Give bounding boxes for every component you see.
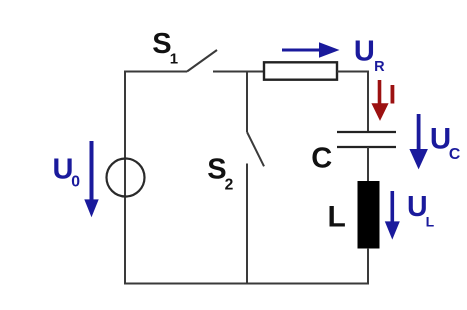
capacitor C top plate xyxy=(337,131,396,133)
svg-text:I: I xyxy=(389,80,396,110)
wire top left segment xyxy=(124,71,187,73)
arrow UR current (blue, right, above resistor) xyxy=(282,49,323,52)
svg-text:U: U xyxy=(354,36,375,68)
switch S1 blade xyxy=(187,50,217,72)
wire S2 branch lower xyxy=(246,164,248,284)
svg-text:L: L xyxy=(426,214,435,230)
arrow UL (blue, down) xyxy=(390,191,394,223)
wire S2 branch upper xyxy=(246,72,248,133)
wire capacitor to inductor xyxy=(367,147,369,182)
svg-text:L: L xyxy=(328,201,346,234)
svg-text:R: R xyxy=(374,59,385,75)
svg-text:C: C xyxy=(449,146,460,163)
svg-text:S: S xyxy=(152,28,171,60)
arrow U0 (blue, down, left side) xyxy=(90,141,94,202)
wire inductor to bottom xyxy=(367,248,369,284)
svg-text:U: U xyxy=(53,153,74,185)
wire bottom horizontal xyxy=(124,283,369,285)
capacitor C bottom plate xyxy=(337,146,396,148)
wire resistor to corner xyxy=(337,71,369,73)
wire top middle segment xyxy=(213,71,264,73)
svg-text:0: 0 xyxy=(71,174,80,191)
wire left vertical xyxy=(124,72,126,284)
resistor R xyxy=(264,62,337,79)
switch S2 blade xyxy=(247,132,264,166)
arrow I (dark red, down) xyxy=(378,80,382,105)
inductor L body xyxy=(358,181,380,249)
svg-text:1: 1 xyxy=(170,51,178,68)
svg-text:U: U xyxy=(407,191,428,223)
wire right top vertical xyxy=(367,71,369,133)
svg-text:2: 2 xyxy=(225,177,234,194)
arrow UC (blue, down) xyxy=(417,114,421,151)
svg-text:C: C xyxy=(311,143,332,175)
voltage source U0 circle xyxy=(107,159,145,197)
